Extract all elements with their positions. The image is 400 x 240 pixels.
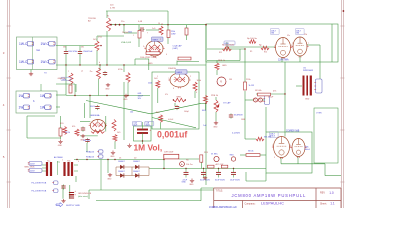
svg-text:NL 33uF/63V: NL 33uF/63V [222, 45, 235, 47]
svg-text:1M Vol,: 1M Vol, [134, 143, 163, 153]
svg-text:SW1: SW1 [230, 155, 234, 157]
svg-text:1: 1 [276, 44, 277, 46]
svg-text:GND: GND [213, 126, 218, 128]
svg-text:0,1uF: 0,1uF [268, 97, 274, 99]
svg-text:1: 1 [157, 76, 158, 78]
svg-text:115V: 115V [30, 163, 35, 165]
svg-text:RG 1k: RG 1k [90, 106, 95, 108]
svg-text:1W-C: 1W-C [19, 42, 28, 46]
svg-text:1N4007: 1N4007 [133, 161, 140, 163]
svg-text:100k (PIN2 TRIM): 100k (PIN2 TRIM) [140, 57, 157, 59]
svg-text:GND: GND [305, 99, 310, 101]
svg-text:7: 7 [308, 43, 309, 45]
svg-text:NFB: NFB [177, 97, 182, 99]
svg-text:PRE 5k: PRE 5k [211, 95, 219, 97]
svg-text:a: a [68, 71, 69, 73]
svg-text:1N4007: 1N4007 [118, 161, 125, 163]
svg-text:TITLE:: TITLE: [216, 190, 224, 193]
svg-text:C4: C4 [158, 23, 160, 25]
svg-text:1: 1 [291, 146, 292, 148]
svg-text:ROAD23: ROAD23 [86, 151, 95, 154]
svg-text:470k: 470k [98, 37, 102, 39]
svg-text:1.0: 1.0 [329, 191, 334, 195]
svg-text:GND: GND [58, 145, 63, 147]
svg-text:low: low [37, 50, 41, 52]
svg-text:8: 8 [173, 88, 174, 90]
svg-text:GND: GND [107, 178, 112, 180]
svg-text:GND: GND [105, 88, 110, 90]
svg-text:1: 1 [89, 124, 90, 126]
svg-text:2: 2 [163, 47, 164, 49]
svg-text:ROAD13: ROAD13 [86, 156, 95, 159]
svg-text:R10: R10 [264, 52, 267, 54]
svg-text:GT CAP: GT CAP [223, 102, 231, 105]
svg-text:GROUNDLES: GROUNDLES [78, 193, 92, 195]
svg-text:GM07: GM07 [152, 39, 159, 41]
svg-text:0,02uF: 0,02uF [168, 119, 173, 121]
svg-text:1: 1 [274, 46, 275, 48]
svg-text:6: 6 [166, 54, 167, 56]
svg-text:GND: GND [222, 65, 227, 67]
svg-text:68k: 68k [63, 47, 66, 49]
svg-text:JCM800-AMP18W-R1.sch: JCM800-AMP18W-R1.sch [209, 206, 238, 208]
svg-text:47k: 47k [165, 94, 168, 96]
svg-text:2: 2 [190, 76, 191, 78]
svg-text:a2: a2 [81, 71, 83, 73]
svg-text:AC1 2W: AC1 2W [216, 163, 224, 166]
svg-text:PIL-JOKEY/TUB: PIL-JOKEY/TUB [31, 183, 46, 185]
svg-text:10k2: 10k2 [128, 32, 132, 34]
svg-text:RG2 470k: RG2 470k [69, 51, 78, 53]
svg-text:GND: GND [148, 63, 153, 65]
svg-text:L1a: L1a [57, 162, 60, 164]
svg-text:GND: GND [182, 182, 187, 184]
svg-text:(after wires): (after wires) [78, 195, 88, 198]
svg-text:OT 8R: OT 8R [316, 113, 322, 115]
svg-text:GM: GM [271, 33, 274, 35]
svg-text:12AX7A: 12AX7A [168, 67, 176, 70]
svg-text:1: 1 [62, 160, 63, 162]
svg-text:1.1: 1.1 [330, 202, 335, 206]
svg-text:Sheet:: Sheet: [320, 202, 327, 205]
svg-text:R1: R1 [107, 16, 109, 18]
svg-text:GND: GND [123, 99, 128, 101]
svg-text:4,7W: 4,7W [110, 8, 115, 10]
svg-text:4: 4 [78, 161, 79, 163]
svg-text:GND: GND [110, 156, 115, 158]
svg-text:115V: 115V [30, 170, 35, 172]
svg-text:16uF 350V: 16uF 350V [230, 179, 240, 181]
svg-text:3: 3 [274, 157, 275, 159]
svg-text:2: 2 [160, 39, 161, 41]
svg-text:(CAP): (CAP) [173, 47, 179, 50]
svg-text:D1: D1 [119, 158, 121, 160]
svg-text:1: 1 [272, 145, 273, 147]
svg-text:1W-C: 1W-C [41, 60, 50, 64]
svg-text:D2: D2 [134, 158, 136, 160]
svg-text:1: 1 [169, 78, 170, 80]
svg-text:NFB 1k: NFB 1k [218, 60, 226, 62]
svg-text:1N4007: 1N4007 [118, 171, 125, 173]
svg-text:100k: 100k [202, 110, 206, 112]
svg-text:VGA 1,003: VGA 1,003 [121, 41, 132, 44]
svg-text:3: 3 [143, 46, 144, 48]
svg-text:2: 2 [106, 124, 107, 126]
svg-text:PIL-JOKEY/TUB: PIL-JOKEY/TUB [31, 191, 46, 193]
svg-text:1: 1 [145, 47, 146, 49]
svg-text:T1b: T1b [67, 161, 70, 163]
svg-text:220k: 220k [148, 83, 152, 85]
svg-text:22n 1kV: 22n 1kV [122, 32, 129, 34]
svg-text:REV: REV [320, 192, 325, 195]
svg-text:1k 1W: 1k 1W [249, 85, 255, 87]
svg-text:12AX7WA: 12AX7WA [278, 59, 289, 62]
svg-text:SUPPLY GND: SUPPLY GND [66, 205, 80, 207]
svg-text:V2a: V2a [287, 35, 290, 37]
svg-text:GM03: GM03 [176, 72, 183, 74]
svg-text:1W-C: 1W-C [41, 42, 50, 46]
svg-text:MED.GKN.: MED.GKN. [25, 167, 36, 169]
svg-text:AL740600: AL740600 [54, 156, 63, 159]
svg-text:0,001uf: 0,001uf [157, 130, 187, 140]
svg-text:0,1/250V: 0,1/250V [232, 133, 241, 135]
svg-text:GND: GND [189, 184, 194, 186]
svg-text:33uF/63V: 33uF/63V [234, 115, 243, 117]
svg-text:10k 2w: 10k 2w [186, 164, 193, 166]
svg-text:NI 10k: NI 10k [248, 151, 254, 153]
svg-text:LESPAULHC: LESPAULHC [261, 202, 284, 206]
svg-text:C1A 470uF: C1A 470uF [83, 50, 93, 53]
svg-text:V2b: V2b [304, 34, 307, 36]
svg-text:1W-C: 1W-C [19, 60, 28, 64]
svg-text:100uF: 100uF [305, 149, 311, 151]
svg-text:104 100n: 104 100n [83, 140, 91, 142]
svg-text:Company:: Company: [245, 202, 256, 205]
svg-text:1: 1 [133, 35, 134, 37]
svg-text:104: 104 [130, 112, 133, 114]
svg-text:R9: R9 [250, 51, 252, 53]
svg-text:JCM800 AMP18W PUSHPULL: JCM800 AMP18W PUSHPULL [232, 193, 307, 198]
svg-text:b: b [99, 62, 100, 64]
svg-text:7: 7 [147, 33, 148, 35]
svg-text:JCM800 0dB: JCM800 0dB [286, 131, 300, 133]
svg-text:2: 2 [292, 43, 293, 45]
svg-text:32uF 350V: 32uF 350V [215, 179, 225, 181]
svg-text:NI 100k: NI 100k [255, 90, 262, 92]
svg-text:GM: GM [296, 33, 299, 35]
svg-text:8: 8 [296, 156, 297, 158]
svg-text:1M: 1M [229, 79, 232, 81]
svg-text:4: 4 [196, 92, 197, 94]
svg-text:Np 100 3w: Np 100 3w [247, 38, 257, 40]
svg-text:68k: 68k [81, 47, 84, 49]
svg-text:2: 2 [189, 78, 190, 80]
svg-text:GM0104A: GM0104A [90, 114, 100, 117]
svg-text:R12: R12 [219, 52, 222, 54]
svg-text:GM470k: GM470k [58, 78, 67, 80]
svg-text:V1 SEC: V1 SEC [211, 154, 218, 156]
svg-text:PWR/100W: PWR/100W [303, 70, 313, 72]
svg-text:W2 478: W2 478 [264, 137, 272, 139]
svg-text:1/4W: 1/4W [171, 33, 176, 35]
svg-text:10H 1/4W: 10H 1/4W [164, 152, 173, 154]
svg-text:1N4007: 1N4007 [133, 171, 140, 173]
svg-text:500pF: 500pF [184, 111, 189, 113]
svg-text:32uF 350V: 32uF 350V [200, 179, 210, 181]
